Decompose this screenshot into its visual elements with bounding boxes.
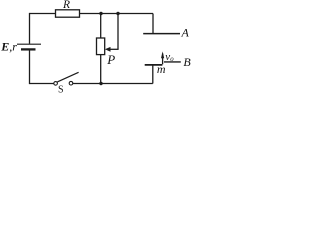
velocity arrow v0 head xyxy=(161,51,164,58)
node junction dot top right xyxy=(116,12,119,15)
svg-text:E,r: E,r xyxy=(0,40,17,54)
wire bottom right segment (switch to plate B lead) xyxy=(73,83,153,85)
svg-text:R: R xyxy=(62,0,70,11)
battery E,r : long thin plate xyxy=(17,43,41,45)
potentiometer wiper horizontal arrow shaft xyxy=(110,48,119,50)
potentiometer wiper arrowhead xyxy=(105,47,111,52)
plate B line (left part) xyxy=(145,64,163,66)
plate A line xyxy=(143,33,180,35)
node junction dot top left xyxy=(99,12,102,15)
svg-text:A: A xyxy=(181,26,190,40)
switch S : right contact circle xyxy=(69,81,73,85)
node junction dot bottom xyxy=(99,82,102,85)
potentiometer wiper feed vertical wire xyxy=(117,13,119,49)
potentiometer P body xyxy=(97,38,105,55)
svg-text:B: B xyxy=(183,55,191,69)
wire bottom left segment (to switch) xyxy=(30,83,54,85)
wire plate B lead down to bottom wire xyxy=(152,65,154,84)
svg-text:S: S xyxy=(58,85,64,96)
svg-text:m: m xyxy=(157,62,166,76)
switch S : lever xyxy=(57,72,78,82)
wire left vertical lower (battery to bottom) xyxy=(29,50,31,84)
switch S : left contact circle xyxy=(54,82,58,86)
resistor R xyxy=(56,10,80,17)
wire right vertical (top wire down to plate A) xyxy=(152,14,154,34)
wire potentiometer upper lead xyxy=(100,14,102,39)
plate B line (right part under v0) xyxy=(164,61,181,63)
wire left vertical upper (to battery) xyxy=(29,13,31,44)
battery E,r : short thick plate xyxy=(21,48,36,50)
svg-text:P: P xyxy=(106,52,115,67)
wire potentiometer lower lead xyxy=(100,55,102,84)
velocity arrow v0 shaft xyxy=(162,54,164,65)
wire top horizontal xyxy=(30,13,154,15)
